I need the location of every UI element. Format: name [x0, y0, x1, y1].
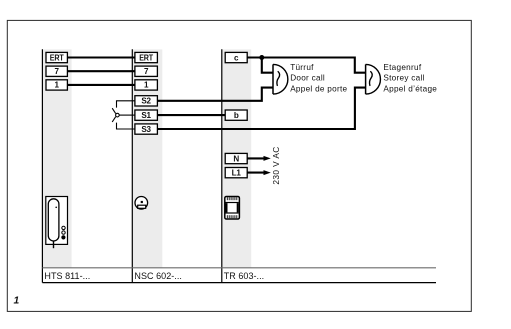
svg-text:TR 603-...: TR 603-... — [224, 271, 265, 281]
svg-text:1: 1 — [144, 81, 149, 90]
svg-text:Etagenruf: Etagenruf — [383, 63, 421, 72]
svg-text:b: b — [234, 111, 239, 120]
svg-text:7: 7 — [55, 67, 60, 76]
svg-text:S3: S3 — [141, 125, 151, 134]
svg-text:Türruf: Türruf — [290, 63, 314, 72]
svg-text:Appel de porte: Appel de porte — [290, 84, 347, 93]
svg-text:c: c — [234, 53, 239, 62]
svg-text:HTS 811-...: HTS 811-... — [44, 271, 90, 281]
svg-text:N: N — [233, 154, 239, 163]
svg-text:S1: S1 — [141, 111, 151, 120]
svg-text:NSC 602-...: NSC 602-... — [134, 271, 182, 281]
svg-text:Storey call: Storey call — [383, 74, 424, 83]
svg-text:S2: S2 — [141, 97, 151, 106]
svg-text:230 V AC: 230 V AC — [271, 146, 281, 184]
svg-text:7: 7 — [144, 67, 149, 76]
svg-text:ERT: ERT — [139, 53, 153, 62]
svg-text:Appel d’étage: Appel d’étage — [383, 84, 437, 93]
svg-text:ERT: ERT — [50, 53, 64, 62]
svg-text:Door call: Door call — [290, 74, 325, 83]
svg-text:1: 1 — [55, 81, 60, 90]
svg-text:L1: L1 — [232, 168, 242, 177]
svg-text:1: 1 — [14, 295, 20, 306]
